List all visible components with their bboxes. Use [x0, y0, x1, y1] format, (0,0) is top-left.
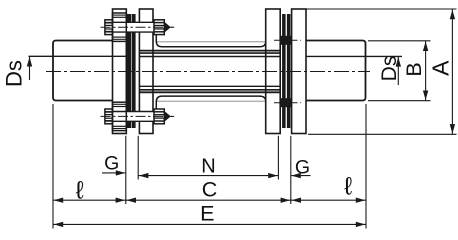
- svg-text:E: E: [200, 202, 214, 226]
- svg-text:ℓ: ℓ: [344, 173, 353, 201]
- svg-text:G: G: [295, 157, 310, 179]
- svg-text:B: B: [402, 62, 426, 76]
- svg-text:Ds: Ds: [2, 60, 27, 87]
- svg-text:ℓ: ℓ: [76, 177, 85, 205]
- svg-text:Ds: Ds: [378, 56, 401, 82]
- svg-text:G: G: [104, 153, 119, 175]
- svg-text:A: A: [428, 60, 454, 76]
- svg-text:C: C: [202, 177, 218, 201]
- svg-text:N: N: [201, 156, 215, 178]
